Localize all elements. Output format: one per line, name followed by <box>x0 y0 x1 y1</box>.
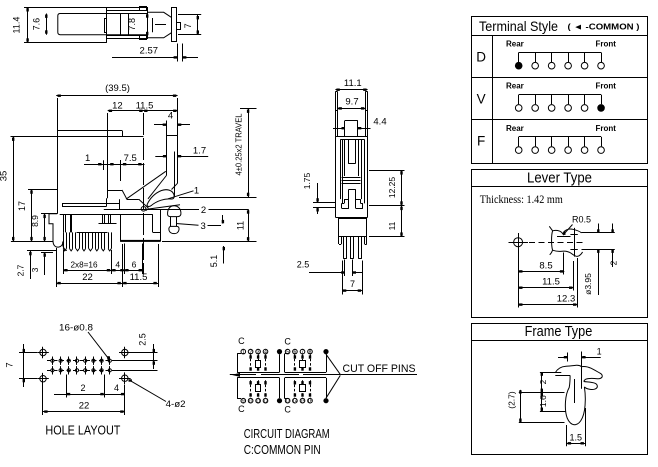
svg-text:12: 12 <box>263 398 269 404</box>
svg-text:5: 5 <box>286 349 289 355</box>
svg-text:22: 22 <box>82 272 93 283</box>
svg-text:Thickness: 1.42 mm: Thickness: 1.42 mm <box>480 194 563 206</box>
svg-text:1: 1 <box>242 349 245 355</box>
svg-text:35: 35 <box>0 171 10 182</box>
svg-text:R0.5: R0.5 <box>572 215 591 225</box>
svg-text:2.5: 2.5 <box>297 260 310 270</box>
svg-text:11.4: 11.4 <box>12 17 22 34</box>
svg-text:Rear: Rear <box>506 82 524 91</box>
svg-text:2x8=16: 2x8=16 <box>70 260 98 269</box>
svg-text:7: 7 <box>5 362 16 367</box>
svg-text:4: 4 <box>115 259 120 269</box>
svg-text:Terminal Style: Terminal Style <box>479 18 558 34</box>
svg-text:16: 16 <box>307 398 313 404</box>
svg-text:CIRCUIT DIAGRAM: CIRCUIT DIAGRAM <box>244 427 330 441</box>
svg-text:11.1: 11.1 <box>344 78 362 89</box>
svg-text:12.25: 12.25 <box>387 177 397 199</box>
svg-text:10: 10 <box>248 398 254 404</box>
svg-text:3: 3 <box>257 349 260 355</box>
svg-text:4±0.25x2 TRAVEL: 4±0.25x2 TRAVEL <box>234 113 243 175</box>
svg-text:1.5: 1.5 <box>570 432 583 442</box>
svg-text:7: 7 <box>301 349 304 355</box>
svg-text:( ◄ -COMMON ): ( ◄ -COMMON ) <box>568 22 640 32</box>
svg-text:1: 1 <box>85 153 90 164</box>
svg-text:1.7: 1.7 <box>193 145 206 156</box>
svg-text:C: C <box>284 337 291 347</box>
svg-text:C: C <box>238 404 245 414</box>
svg-text:HOLE LAYOUT: HOLE LAYOUT <box>45 423 120 438</box>
svg-text:7.5: 7.5 <box>124 153 137 164</box>
svg-text:2: 2 <box>538 379 548 384</box>
svg-text:14: 14 <box>292 398 298 404</box>
svg-text:F: F <box>477 134 485 149</box>
svg-text:4: 4 <box>168 111 173 122</box>
svg-text:Rear: Rear <box>506 39 524 48</box>
svg-text:1.6: 1.6 <box>538 395 548 407</box>
svg-text:9.7: 9.7 <box>345 97 358 108</box>
svg-text:4: 4 <box>114 383 119 393</box>
svg-text:ø3.95: ø3.95 <box>583 273 593 295</box>
svg-text:C: C <box>284 405 291 415</box>
svg-text:C:COMMON PIN: C:COMMON PIN <box>244 443 321 457</box>
svg-text:4.4: 4.4 <box>373 117 386 128</box>
svg-text:17: 17 <box>17 201 27 211</box>
svg-text:(39.5): (39.5) <box>105 83 130 94</box>
svg-text:4: 4 <box>264 349 267 355</box>
svg-text:8.9: 8.9 <box>30 215 40 227</box>
svg-text:15: 15 <box>300 398 306 404</box>
svg-text:9: 9 <box>242 398 245 404</box>
svg-text:11.5: 11.5 <box>542 277 560 288</box>
svg-text:D: D <box>476 49 486 64</box>
svg-text:CUT OFF PINS: CUT OFF PINS <box>343 363 416 375</box>
svg-text:7.8: 7.8 <box>127 18 137 31</box>
svg-text:5.1: 5.1 <box>209 255 219 268</box>
svg-text:V: V <box>477 92 486 107</box>
svg-text:12: 12 <box>112 100 123 111</box>
svg-text:12.3: 12.3 <box>557 294 576 305</box>
svg-text:16-ø0.8: 16-ø0.8 <box>59 322 93 333</box>
svg-text:2: 2 <box>80 383 85 393</box>
svg-text:8.5: 8.5 <box>539 260 552 271</box>
svg-text:2: 2 <box>249 349 252 355</box>
svg-text:Front: Front <box>596 124 617 133</box>
svg-text:2.5: 2.5 <box>138 333 148 346</box>
svg-text:1: 1 <box>194 186 199 197</box>
svg-text:8: 8 <box>309 349 312 355</box>
svg-text:6: 6 <box>132 259 137 269</box>
svg-text:Frame Type: Frame Type <box>525 324 593 340</box>
svg-text:4-ø2: 4-ø2 <box>166 399 186 410</box>
svg-text:Rear: Rear <box>506 124 524 133</box>
svg-text:7.6: 7.6 <box>32 18 42 31</box>
svg-text:Front: Front <box>596 82 617 91</box>
svg-text:11: 11 <box>387 221 397 230</box>
svg-text:2: 2 <box>201 205 206 216</box>
svg-text:22: 22 <box>79 401 90 412</box>
svg-text:2.7: 2.7 <box>15 264 25 276</box>
svg-text:C: C <box>238 336 245 346</box>
svg-text:Lever Type: Lever Type <box>527 170 592 186</box>
svg-text:7: 7 <box>183 23 193 28</box>
svg-text:1: 1 <box>597 347 602 357</box>
svg-text:7: 7 <box>350 279 355 289</box>
svg-text:Front: Front <box>596 39 617 48</box>
svg-text:11: 11 <box>236 221 246 230</box>
svg-text:13: 13 <box>285 398 291 404</box>
svg-text:2.57: 2.57 <box>140 46 159 57</box>
svg-text:1.75: 1.75 <box>302 172 312 189</box>
svg-text:(2.7): (2.7) <box>507 391 517 409</box>
svg-text:2: 2 <box>609 260 619 265</box>
svg-text:3: 3 <box>30 267 40 272</box>
svg-text:3: 3 <box>201 221 206 232</box>
svg-text:11: 11 <box>255 398 260 404</box>
svg-text:11.5: 11.5 <box>130 272 148 283</box>
svg-text:6: 6 <box>294 349 297 355</box>
